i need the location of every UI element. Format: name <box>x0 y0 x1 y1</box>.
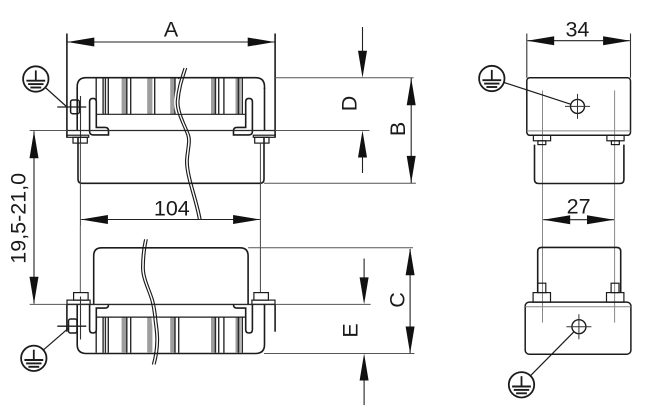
flange seam (side view top) <box>527 130 631 132</box>
left peg nub (bottom view) <box>74 293 89 301</box>
ground symbol bottom-right <box>509 372 534 397</box>
dimension 19,5-21,0 line <box>33 131 35 303</box>
earth screw hidden line (bottom view) <box>80 297 82 340</box>
insert top shoulder line (bottom view) <box>97 316 246 318</box>
left inner wall <box>76 88 78 131</box>
left foot (side view bottom) <box>533 293 550 303</box>
flange line (top view) <box>67 130 275 132</box>
dimension A line <box>68 41 275 43</box>
svg-text:B: B <box>386 122 410 136</box>
earth terminal tick (top view) <box>57 106 86 108</box>
right outer wall (bottom view) <box>274 304 276 331</box>
screw target (side view top) <box>571 99 585 113</box>
collar (bottom view) <box>94 248 248 305</box>
ground symbol bottom-left <box>21 346 46 371</box>
svg-text:D: D <box>337 96 361 112</box>
right inner wall <box>264 88 266 131</box>
right hook (bottom view) <box>234 304 253 333</box>
dimension B <box>410 78 412 183</box>
hood big box (side view bottom) <box>525 302 631 354</box>
leader top-right <box>504 83 570 105</box>
skirt bottom extension to B dim <box>264 182 416 184</box>
left peg extension (bottom view) <box>79 226 81 293</box>
flange line (bottom view) <box>67 303 275 305</box>
svg-text:104: 104 <box>154 196 190 220</box>
104 right extension line <box>259 143 261 293</box>
bottom edge extension to E/C dims <box>264 353 415 355</box>
dimension 34 line <box>528 40 630 42</box>
svg-text:E: E <box>339 323 363 337</box>
mating block (side view top) <box>535 145 624 184</box>
left outer wall (bottom view) <box>66 304 68 331</box>
right peg plate (bottom view) <box>252 300 275 304</box>
34 extension lines <box>526 34 528 78</box>
flange seam (side view bottom) <box>525 306 631 308</box>
ground symbol top-left <box>23 66 48 91</box>
left hook (bottom view) <box>90 304 109 333</box>
flange extension to 19.5 dim bottom <box>30 303 67 305</box>
top edge extension to D/B dims <box>275 77 414 79</box>
left locking hook <box>90 98 109 134</box>
svg-text:27: 27 <box>567 195 591 219</box>
flange extension to E dim <box>275 303 371 305</box>
right peg nub (bottom view) <box>254 293 269 301</box>
hood bottom edge (bottom view) <box>77 304 264 353</box>
left foot nub (top view) <box>73 137 87 143</box>
collar top extension to C dim <box>248 247 413 249</box>
earth screw hidden line (top view) <box>80 96 82 143</box>
lower rectangle (hood skirt) <box>78 137 264 183</box>
right outer wall / A extension line <box>274 34 276 138</box>
contact insert hatching (top view) <box>122 79 127 115</box>
left foot plate (top view) <box>67 135 89 137</box>
right foot (side view bottom) <box>607 293 624 303</box>
right foot (side view top) <box>607 135 624 141</box>
104 left extension line <box>79 143 81 293</box>
ground symbol top-right <box>479 66 504 91</box>
right locking hook <box>234 98 253 134</box>
right foot nub (top view) <box>255 137 269 143</box>
mating block (side view bottom) <box>538 247 621 292</box>
svg-text:34: 34 <box>565 17 589 41</box>
dimension D <box>362 27 364 54</box>
screw target (side view bottom) <box>572 320 586 334</box>
svg-text:19,5-21,0: 19,5-21,0 <box>7 173 31 264</box>
left outer wall / A extension line <box>66 34 68 138</box>
insert bottom shoulder line <box>97 113 246 115</box>
earth terminal tick (bottom view) <box>57 325 86 327</box>
dimension 104 line <box>81 219 260 221</box>
left foot (side view top) <box>533 135 550 141</box>
dimension 27 <box>543 219 614 221</box>
earth terminal tab (top view) <box>71 100 80 114</box>
leader bottom-left <box>43 328 69 350</box>
dimension C <box>409 249 411 353</box>
left peg plate (bottom view) <box>67 300 90 304</box>
flange extension to 19.5 dim <box>30 130 67 132</box>
hood big box (side view top) <box>527 78 631 136</box>
flange extension to D dim <box>275 130 369 132</box>
svg-text:A: A <box>164 18 179 42</box>
earth terminal tab (bottom view) <box>69 319 78 333</box>
leader bottom-right <box>530 332 574 376</box>
contact insert hatching (bottom view) <box>122 317 127 353</box>
hidden inner walls (side view) <box>542 91 544 323</box>
leader top-left <box>45 88 67 108</box>
svg-text:C: C <box>386 292 410 308</box>
dimension E <box>363 259 365 281</box>
right foot plate (top view) <box>253 135 275 137</box>
hood top edge <box>77 78 264 89</box>
